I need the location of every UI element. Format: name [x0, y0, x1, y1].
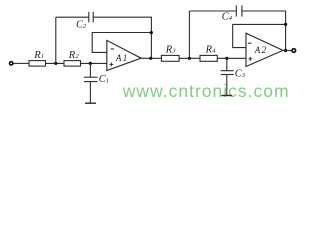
label R1: [33, 50, 44, 61]
output terminal: [292, 49, 296, 53]
wire A2 inverting feedback: [233, 24, 286, 47]
svg-text:3: 3: [171, 48, 176, 55]
wire node E up to C4 row: [188, 11, 190, 58]
wire C3 to ground: [226, 75, 228, 96]
label R4: [205, 44, 217, 55]
svg-text:A2: A2: [254, 45, 268, 55]
node B junction dot: [89, 62, 92, 65]
node H junction dot: [284, 49, 287, 52]
wire R3 to R4: [179, 57, 200, 59]
resistor R2: [64, 61, 81, 67]
A1 plus sign: [110, 63, 114, 67]
wire R2 to op-amp A1 plus input: [81, 62, 107, 64]
label C2: [76, 20, 87, 31]
input terminal: [10, 62, 13, 65]
resistor R4: [200, 55, 217, 61]
ground (stage 1): [85, 102, 96, 104]
capacitor C1: [84, 77, 98, 81]
wire C1 to ground: [89, 82, 91, 103]
A1 minus sign: [111, 48, 114, 50]
label C3: [235, 69, 246, 80]
svg-text:www.cntronics.com: www.cntronics.com: [122, 81, 290, 101]
label R2: [68, 50, 80, 61]
A2 minus sign: [248, 42, 251, 44]
capacitor C2: [89, 12, 93, 23]
capacitor C4: [236, 5, 242, 16]
label R3: [165, 44, 177, 55]
wire C4 to output node: [242, 11, 286, 51]
svg-text:1: 1: [41, 53, 44, 60]
op-amp A1: [107, 40, 141, 70]
node F junction dot: [225, 57, 228, 60]
node A junction dot: [54, 62, 57, 65]
resistor R1: [29, 61, 46, 67]
capacitor C3: [221, 71, 234, 75]
svg-text:A1: A1: [115, 53, 129, 63]
wire A2 output: [283, 50, 291, 52]
wire node F down to C3: [226, 58, 228, 70]
wire C2 to output node: [93, 17, 151, 58]
wire C4 row top: [189, 10, 236, 12]
ground (stage 2): [221, 95, 232, 97]
wire A1 inverting feedback: [92, 33, 151, 53]
wire node B down to C1: [89, 63, 91, 77]
resistor R3: [161, 55, 179, 61]
wire A1 output row: [141, 57, 161, 59]
svg-text:1: 1: [106, 77, 109, 84]
A2 plus sign: [249, 57, 253, 61]
svg-text:3: 3: [241, 72, 246, 79]
node E junction dot: [188, 57, 191, 60]
wire input to R1: [14, 62, 29, 64]
wire R1 to R2: [46, 62, 65, 64]
node G junction dot: [284, 23, 287, 26]
node C junction dot: [150, 31, 153, 34]
op-amp A2: [246, 33, 283, 66]
wire node A up to C2 row: [55, 17, 57, 63]
wire R4 to op-amp A2 plus input: [217, 57, 246, 59]
wire C2 row top: [56, 16, 89, 18]
node D junction dot: [149, 57, 152, 60]
label C4: [222, 12, 233, 23]
label C1: [99, 74, 109, 85]
